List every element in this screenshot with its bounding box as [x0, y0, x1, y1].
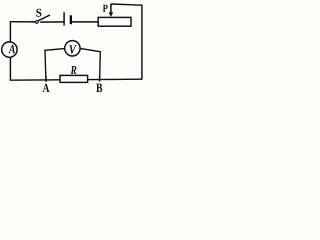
switch S blade [38, 15, 50, 21]
wire right vertical [141, 5, 143, 80]
wire top-left segment [10, 21, 35, 23]
wire arrow-top to top-right corner [111, 4, 142, 5]
wire left vertical lower [9, 57, 11, 80]
ammeter A [2, 42, 17, 57]
rheostat P body [98, 17, 131, 26]
switch S pivot [36, 21, 39, 24]
rheostat slider arrowhead [109, 12, 114, 16]
resistor R body [60, 75, 88, 82]
label R [71, 66, 77, 74]
wire battery to rheostat [72, 21, 99, 23]
label S [36, 9, 41, 17]
wire voltmeter left horizontal [45, 49, 65, 51]
battery plate long (positive) [63, 12, 65, 25]
wire voltmeter left drop [44, 50, 47, 80]
wire left vertical upper [9, 21, 11, 42]
wire bottom [10, 79, 143, 80]
wire voltmeter right drop [99, 52, 102, 81]
node B junction stub [99, 77, 101, 82]
battery plate short thick (negative) [70, 15, 72, 24]
label P [103, 5, 108, 12]
wire switch to battery [40, 21, 63, 23]
label A [43, 84, 50, 92]
wire voltmeter right horizontal [80, 48, 100, 52]
voltmeter V [65, 41, 80, 56]
rheostat slider arrow shaft [110, 4, 112, 13]
node A junction stub [45, 77, 47, 83]
label B [96, 84, 102, 93]
